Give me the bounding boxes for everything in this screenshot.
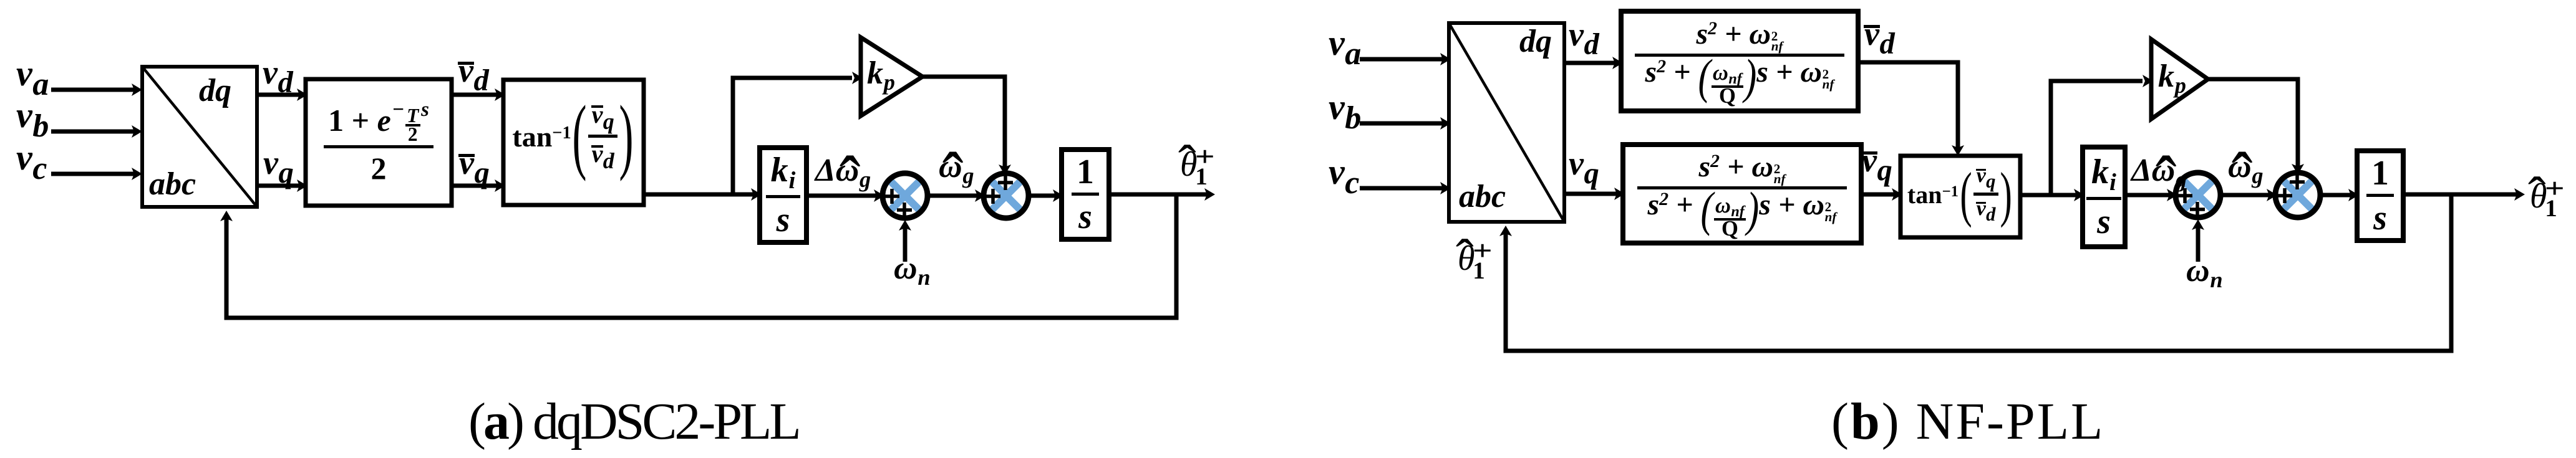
- label v_q wire (b): [1569, 146, 1599, 188]
- label v_a (b): [1329, 25, 1361, 70]
- wire sum2 to integrator (b): [2320, 189, 2359, 201]
- wire v_q (a): [257, 179, 307, 192]
- wire vbar_q to arctan (b): [1861, 188, 1902, 201]
- label v_d wire (a): [263, 55, 293, 97]
- block arctan (a): [503, 80, 644, 205]
- wire input v_b (a): [51, 125, 142, 138]
- label abc (b): [1459, 181, 1506, 213]
- wire omega_n input (b): [2192, 219, 2204, 262]
- summing junction 2 (b): [2275, 173, 2320, 217]
- wire arctan output to k_i/s (a): [644, 188, 762, 201]
- gain triangle k_p (b): [2151, 39, 2208, 119]
- caption (b) NF-PLL: [1831, 391, 2104, 452]
- label theta_1 output (b): [2530, 179, 2547, 214]
- wire v_d (b): [1564, 57, 1623, 69]
- wire input v_a (a): [51, 83, 142, 96]
- block formula 1/s (b): [2357, 151, 2403, 241]
- label vbar_d wire (b): [1864, 17, 1895, 59]
- block formula arctan (a): [503, 80, 644, 205]
- wire branch up to k_p (b): [2049, 75, 2154, 195]
- label v_d wire (b): [1569, 17, 1599, 59]
- wire k_i/s output to sum (b): [2125, 189, 2177, 201]
- wire sum1 to sum2 (b): [2220, 189, 2277, 201]
- wire sum2 to integrator (a): [1029, 189, 1063, 202]
- label vbar_d wire (a): [458, 54, 489, 95]
- label omega_g hat (a): [939, 151, 974, 188]
- block formula k_i/s (a): [760, 148, 806, 242]
- block formula k_i/s (b): [2083, 147, 2125, 247]
- label vbar_q wire (b): [1862, 143, 1892, 185]
- wire vbar_q (a): [452, 179, 505, 192]
- label dq (b): [1519, 26, 1552, 58]
- label v_b (b): [1329, 89, 1361, 134]
- block formula arctan (b): [1901, 156, 2020, 237]
- label k_p (b): [2158, 60, 2186, 97]
- wire input v_c (b): [1360, 182, 1451, 194]
- summing junction 1 (a): [883, 173, 927, 218]
- label k_p (a): [867, 57, 895, 94]
- block abc-to-dq transform (a): [142, 67, 257, 207]
- label v_c (a): [16, 140, 47, 184]
- wire branch up to k_p (a): [731, 72, 863, 194]
- label v_q wire (a): [263, 146, 294, 188]
- wire k_i/s output to sum (a): [806, 189, 884, 202]
- wire omega_n input (a): [899, 220, 911, 262]
- label abc (a): [149, 168, 196, 201]
- label v_c (b): [1329, 154, 1359, 199]
- label omega_n (a): [894, 252, 931, 289]
- block formula notch filter d (b): [1621, 11, 1858, 111]
- label v_a (a): [16, 55, 49, 100]
- wire vbar_d (a): [452, 88, 505, 101]
- block k_i/s integrator (a): [760, 148, 806, 242]
- wire theta output (b): [2403, 188, 2525, 201]
- wire feedback loop (a): [220, 194, 1176, 318]
- block formula half-cycle delay (a): [306, 79, 452, 206]
- label theta_1 feedback (b): [1458, 241, 1475, 276]
- label omega_g hat (b): [2228, 151, 2264, 188]
- wire v_q (b): [1564, 188, 1625, 200]
- label omega_n (b): [2186, 255, 2223, 292]
- wire theta output (a): [1109, 188, 1215, 201]
- wire k_p output down to sum2 (a): [922, 77, 1011, 175]
- wire input v_b (b): [1360, 117, 1451, 130]
- block 1/s integrator (b): [2357, 151, 2403, 241]
- summing junction 2 (a): [984, 173, 1029, 218]
- wire arctan output to k_i/s (b): [2020, 189, 2085, 201]
- wire vbar_d to arctan (b): [1858, 62, 1964, 156]
- block half-cycle delay DSC (a): [306, 79, 452, 206]
- label v_b (a): [16, 97, 49, 142]
- block formula 1/s (a): [1062, 150, 1109, 239]
- wire feedback loop (b): [1499, 194, 2451, 351]
- block 1/s integrator (a): [1062, 150, 1109, 239]
- label Delta omega_g (b): [2131, 155, 2187, 191]
- summing junction 1 (b): [2176, 173, 2220, 217]
- wire input v_c (a): [51, 168, 142, 180]
- block formula notch filter q (b): [1623, 145, 1861, 243]
- wire v_d (a): [257, 88, 307, 101]
- block arctan (b): [1901, 156, 2020, 237]
- block k_i/s integrator (b): [2083, 147, 2125, 247]
- label Delta omega_g (a): [815, 155, 871, 191]
- block notch filter q-axis (b): [1623, 145, 1861, 243]
- wire k_p output down to sum2 (b): [2208, 79, 2304, 174]
- label dq (a): [199, 75, 231, 107]
- gain triangle k_p (a): [861, 37, 922, 116]
- label theta_1 output (a): [1180, 147, 1198, 182]
- block notch filter d-axis (b): [1621, 11, 1858, 111]
- caption (a) dqDSC2-PLL: [468, 391, 799, 452]
- block abc-to-dq transform (b): [1449, 23, 1564, 222]
- wire sum1 to sum2 (a): [927, 189, 985, 202]
- label vbar_q wire (a): [459, 146, 490, 188]
- wire input v_a (b): [1360, 53, 1451, 65]
